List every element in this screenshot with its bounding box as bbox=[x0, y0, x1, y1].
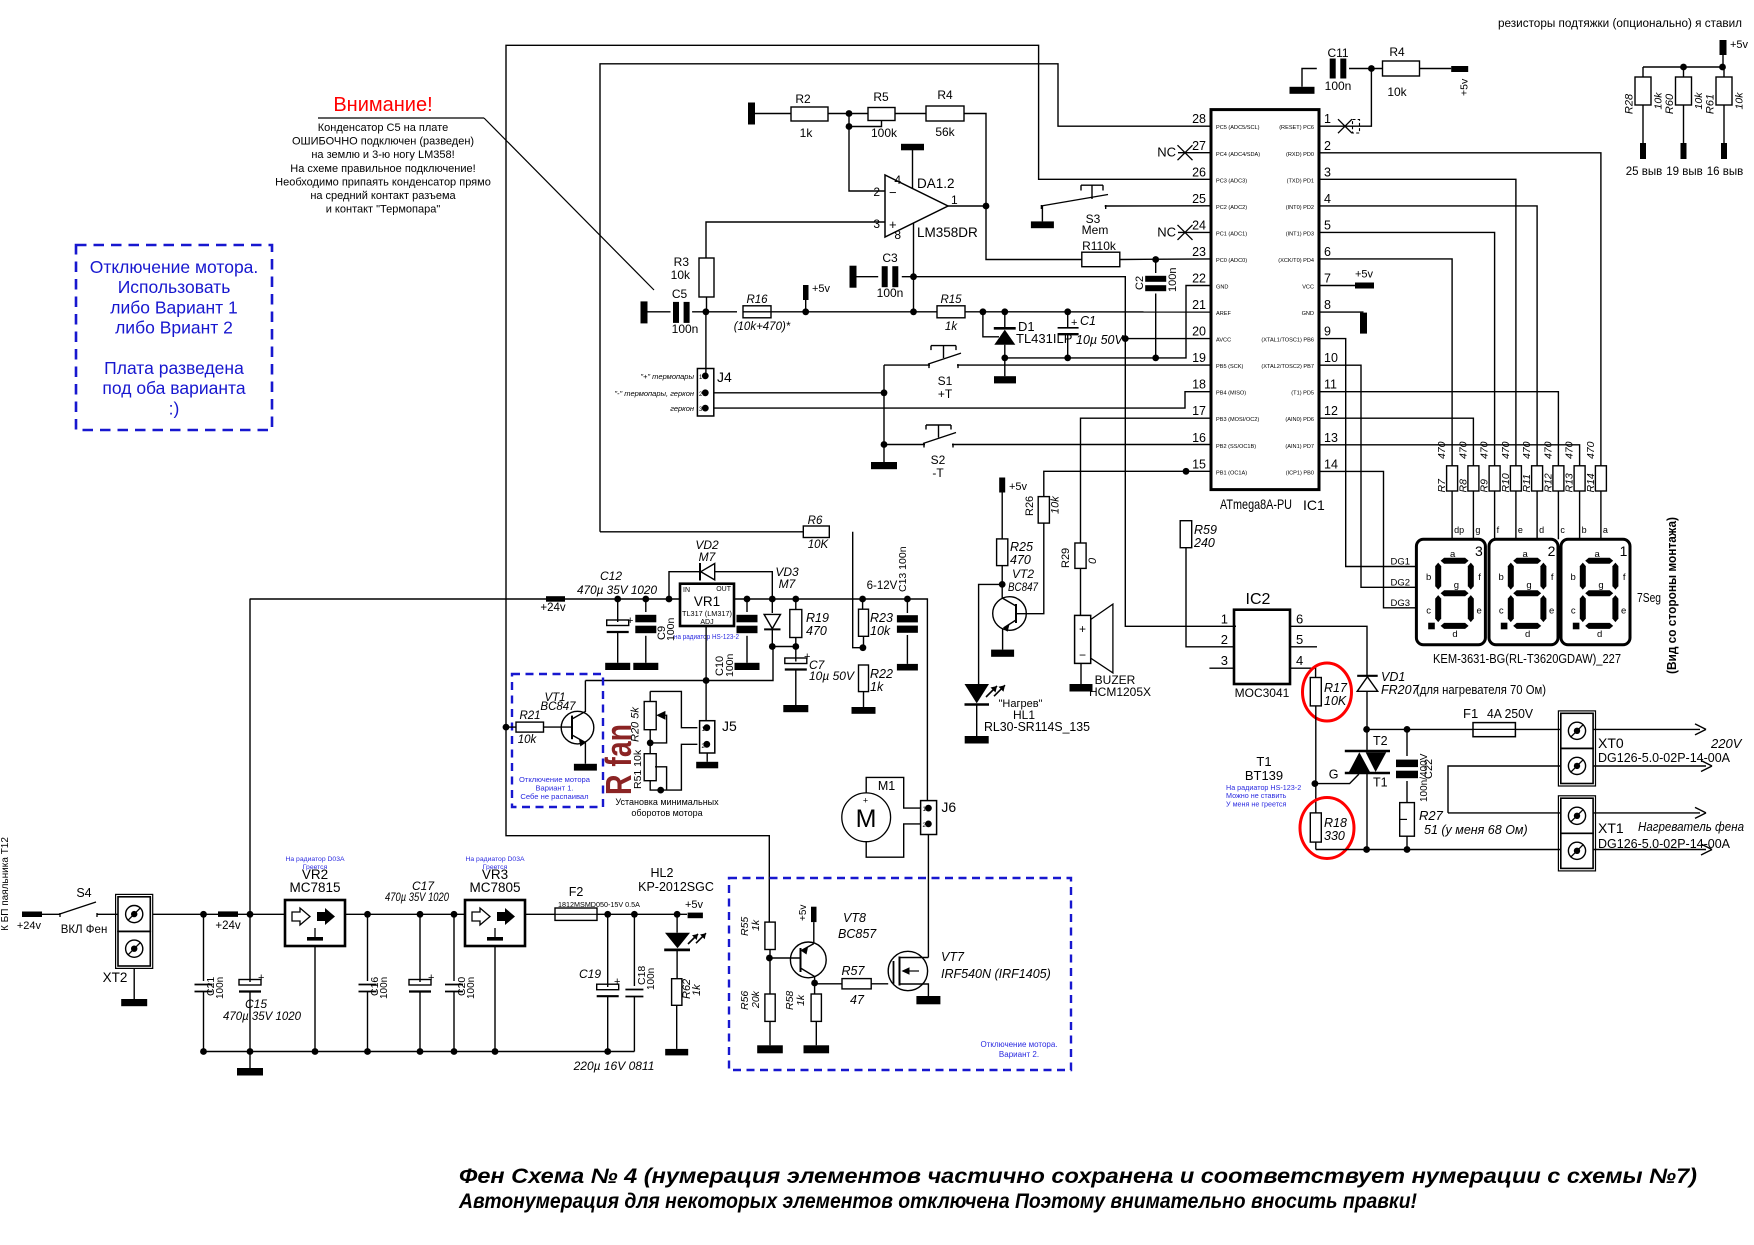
svg-text:0: 0 bbox=[1087, 557, 1099, 564]
svg-text:VT2: VT2 bbox=[1012, 567, 1034, 581]
svg-text:"-" термопары, геркон: "-" термопары, геркон bbox=[614, 389, 694, 398]
svg-text:+: + bbox=[614, 976, 620, 988]
svg-text:На схеме правильное подключени: На схеме правильное подключение! bbox=[290, 163, 475, 175]
svg-text:DG2: DG2 bbox=[1390, 577, 1410, 588]
svg-text:d: d bbox=[1539, 525, 1544, 535]
svg-text:220V: 220V bbox=[1710, 736, 1743, 751]
svg-text:ADJ: ADJ bbox=[700, 619, 713, 626]
svg-text:330: 330 bbox=[1324, 829, 1345, 843]
svg-text:16: 16 bbox=[1192, 431, 1206, 445]
svg-text:ATmega8A-PU: ATmega8A-PU bbox=[1220, 496, 1292, 512]
svg-text:IC1: IC1 bbox=[1303, 497, 1325, 513]
svg-text:6: 6 bbox=[1296, 611, 1303, 626]
svg-text:100k: 100k bbox=[871, 126, 898, 140]
svg-text:d: d bbox=[1452, 629, 1457, 640]
svg-text:470: 470 bbox=[1585, 441, 1597, 459]
svg-text:На радиатор D03A: На радиатор D03A bbox=[285, 856, 344, 863]
svg-text:d: d bbox=[1597, 629, 1602, 640]
svg-text:NC: NC bbox=[1157, 145, 1176, 160]
svg-text:DG3: DG3 bbox=[1390, 598, 1410, 609]
svg-text:XT0: XT0 bbox=[1598, 735, 1624, 751]
svg-text:470µ 35V 1020: 470µ 35V 1020 bbox=[223, 1009, 301, 1023]
svg-text:Конденсатор С5 на плате: Конденсатор С5 на плате bbox=[318, 122, 448, 134]
svg-text:C5: C5 bbox=[672, 287, 688, 301]
svg-text:Внимание!: Внимание! bbox=[333, 94, 432, 116]
svg-text:1: 1 bbox=[1221, 611, 1228, 626]
svg-text:Плата разведена: Плата разведена bbox=[104, 358, 244, 378]
svg-text:Вариант 2.: Вариант 2. bbox=[999, 1050, 1039, 1059]
svg-text:Отключение мотора.: Отключение мотора. bbox=[980, 1040, 1057, 1049]
svg-text:(XTAL2/TOSC2) PB7: (XTAL2/TOSC2) PB7 bbox=[1261, 364, 1314, 370]
svg-text:1k: 1k bbox=[870, 680, 884, 694]
svg-text:(ICP1) PB0: (ICP1) PB0 bbox=[1286, 470, 1314, 476]
svg-text:R19: R19 bbox=[806, 611, 829, 625]
svg-text:либо Вриант 2: либо Вриант 2 bbox=[115, 318, 233, 338]
svg-text:У меня не греется: У меня не греется bbox=[1226, 799, 1287, 808]
svg-text:b: b bbox=[1499, 572, 1504, 583]
svg-text:100n/400V: 100n/400V bbox=[1419, 753, 1430, 802]
svg-text:M7: M7 bbox=[699, 550, 717, 564]
svg-text:DG126-5.0-02P-14-00A: DG126-5.0-02P-14-00A bbox=[1598, 836, 1730, 851]
svg-text:470: 470 bbox=[1521, 441, 1533, 459]
svg-text:15: 15 bbox=[1192, 457, 1206, 471]
svg-text:(AIN1) PD7: (AIN1) PD7 bbox=[1285, 444, 1314, 450]
svg-text:GND: GND bbox=[1216, 285, 1228, 291]
svg-text:+5v: +5v bbox=[1730, 39, 1749, 51]
svg-text:Mem: Mem bbox=[1082, 223, 1109, 237]
svg-text:R4: R4 bbox=[937, 88, 953, 102]
svg-text:+: + bbox=[1079, 622, 1086, 636]
svg-text:c: c bbox=[1499, 605, 1504, 616]
svg-text:R13: R13 bbox=[1564, 473, 1576, 492]
svg-text::): :) bbox=[169, 398, 180, 418]
svg-text:a: a bbox=[1450, 549, 1456, 560]
svg-text:5: 5 bbox=[1324, 218, 1331, 232]
svg-text:10k: 10k bbox=[1653, 92, 1665, 110]
svg-text:b: b bbox=[1582, 525, 1587, 535]
svg-text:+24v: +24v bbox=[540, 602, 566, 614]
svg-text:1k: 1k bbox=[795, 994, 807, 1006]
svg-text:M7: M7 bbox=[779, 577, 797, 591]
svg-text:R2: R2 bbox=[795, 92, 811, 106]
svg-text:e: e bbox=[1621, 605, 1626, 616]
svg-text:R11: R11 bbox=[1521, 474, 1533, 492]
svg-text:(T1) PD5: (T1) PD5 bbox=[1291, 391, 1314, 397]
svg-text:R17: R17 bbox=[1324, 681, 1348, 695]
svg-text:c: c bbox=[1560, 525, 1565, 535]
svg-text:56k: 56k bbox=[935, 125, 955, 139]
svg-text:10: 10 bbox=[1324, 351, 1338, 365]
svg-text:R27: R27 bbox=[1419, 808, 1444, 823]
svg-text:M: M bbox=[856, 805, 877, 833]
svg-text:b: b bbox=[1571, 572, 1576, 583]
svg-text:e: e bbox=[1549, 605, 1554, 616]
svg-text:Отключение мотора.: Отключение мотора. bbox=[90, 257, 259, 277]
svg-text:R29: R29 bbox=[1060, 548, 1072, 568]
svg-text:9: 9 bbox=[1324, 325, 1331, 339]
svg-text:dp: dp bbox=[1454, 525, 1464, 535]
svg-text:VCC: VCC bbox=[1302, 285, 1314, 291]
svg-text:10K: 10K bbox=[1324, 694, 1347, 708]
svg-text:1: 1 bbox=[951, 193, 958, 207]
svg-text:21: 21 bbox=[1192, 298, 1206, 312]
svg-text:100n: 100n bbox=[1167, 268, 1179, 292]
svg-text:IN: IN bbox=[683, 587, 690, 594]
svg-text:PC0 (ADC0): PC0 (ADC0) bbox=[1216, 258, 1247, 264]
svg-text:100n: 100n bbox=[215, 977, 226, 999]
svg-text:LM358DR: LM358DR bbox=[917, 225, 978, 240]
svg-text:AREF: AREF bbox=[1216, 311, 1232, 317]
svg-text:GND: GND bbox=[1302, 311, 1314, 317]
svg-text:M1: M1 bbox=[878, 779, 895, 793]
svg-text:10K: 10K bbox=[808, 539, 830, 551]
svg-text:KEM-3631-BG(RL-T3620GDAW)_227: KEM-3631-BG(RL-T3620GDAW)_227 bbox=[1433, 652, 1621, 666]
svg-text:BC847: BC847 bbox=[540, 701, 576, 713]
svg-text:e: e bbox=[1518, 525, 1523, 535]
svg-text:7Seg: 7Seg bbox=[1637, 591, 1661, 605]
svg-text:11: 11 bbox=[1324, 378, 1337, 392]
svg-text:10k: 10k bbox=[518, 734, 538, 746]
svg-text:27: 27 bbox=[1192, 139, 1206, 153]
svg-text:470: 470 bbox=[1436, 441, 1448, 459]
svg-text:J4: J4 bbox=[717, 369, 732, 385]
svg-text:R9: R9 bbox=[1479, 479, 1491, 493]
svg-text:470: 470 bbox=[1500, 441, 1512, 459]
svg-text:R26: R26 bbox=[1024, 496, 1036, 516]
svg-text:25: 25 bbox=[1192, 192, 1206, 206]
svg-text:F2: F2 bbox=[569, 885, 584, 899]
svg-text:R7: R7 bbox=[1436, 478, 1448, 493]
svg-text:J5: J5 bbox=[722, 718, 737, 734]
svg-text:+24v: +24v bbox=[215, 920, 241, 932]
svg-text:ОШИБОЧНО подключен (разведен): ОШИБОЧНО подключен (разведен) bbox=[292, 136, 474, 148]
svg-text:10k: 10k bbox=[1387, 85, 1407, 99]
svg-text:R18: R18 bbox=[1324, 816, 1347, 830]
svg-text:R23: R23 bbox=[870, 611, 893, 625]
svg-text:RL30-SR114S_135: RL30-SR114S_135 bbox=[984, 720, 1090, 734]
svg-text:HL2: HL2 bbox=[651, 866, 674, 880]
svg-text:Установка минимальных: Установка минимальных bbox=[615, 797, 719, 807]
svg-text:S4: S4 bbox=[76, 886, 91, 900]
svg-text:Себе не распаивал: Себе не распаивал bbox=[520, 792, 588, 801]
svg-text:1: 1 bbox=[1324, 112, 1331, 126]
svg-text:g: g bbox=[1526, 580, 1531, 591]
svg-text:XT1: XT1 bbox=[1598, 820, 1624, 836]
svg-text:C1: C1 bbox=[1080, 314, 1096, 328]
svg-text:HCM1205X: HCM1205X bbox=[1089, 685, 1151, 699]
svg-text:Автонумерация для некоторых эл: Автонумерация для некоторых элементов от… bbox=[458, 1190, 1417, 1213]
svg-text:G: G bbox=[1329, 768, 1339, 782]
svg-text:PB4 (MISO): PB4 (MISO) bbox=[1216, 391, 1246, 397]
svg-text:либо Вариант 1: либо Вариант 1 bbox=[110, 297, 238, 317]
svg-text:J6: J6 bbox=[941, 799, 956, 815]
svg-text:100n: 100n bbox=[877, 286, 904, 300]
svg-text:470: 470 bbox=[806, 624, 827, 638]
svg-text:R22: R22 bbox=[870, 667, 893, 681]
svg-text:470: 470 bbox=[1564, 441, 1576, 459]
svg-text:2: 2 bbox=[1324, 139, 1331, 153]
svg-text:VD1: VD1 bbox=[1381, 670, 1405, 684]
svg-text:R59: R59 bbox=[1194, 523, 1217, 537]
svg-text:20k: 20k bbox=[750, 990, 762, 1009]
svg-text:240: 240 bbox=[1193, 536, 1215, 550]
svg-text:f: f bbox=[1623, 572, 1626, 583]
svg-text:1k: 1k bbox=[800, 126, 814, 140]
svg-text:S1: S1 bbox=[938, 374, 953, 388]
svg-text:4: 4 bbox=[894, 173, 901, 187]
svg-text:на землю и 3-ю ногу LM358!: на землю и 3-ю ногу LM358! bbox=[311, 149, 454, 161]
svg-text:4: 4 bbox=[1324, 192, 1331, 206]
svg-text:51 (у меня 68 Ом): 51 (у меня 68 Ом) bbox=[1424, 823, 1528, 837]
svg-text:BT139: BT139 bbox=[1245, 768, 1283, 783]
svg-text:e: e bbox=[1476, 605, 1481, 616]
svg-text:100n: 100n bbox=[379, 977, 390, 999]
svg-text:3: 3 bbox=[1221, 653, 1228, 668]
svg-text:14: 14 bbox=[1324, 457, 1338, 471]
svg-text:R110k: R110k bbox=[1082, 239, 1117, 253]
svg-text:100n: 100n bbox=[724, 653, 736, 677]
svg-text:NC: NC bbox=[1157, 224, 1176, 239]
svg-text:+: + bbox=[863, 796, 868, 806]
svg-text:3: 3 bbox=[1475, 543, 1483, 559]
svg-text:220µ 16V 0811: 220µ 16V 0811 bbox=[573, 1059, 655, 1073]
svg-text:19 выв: 19 выв bbox=[1666, 166, 1702, 178]
svg-text:+5v: +5v bbox=[1355, 269, 1374, 281]
svg-text:(Вид со стороны монтажа): (Вид со стороны монтажа) bbox=[1665, 517, 1679, 674]
svg-text:T1: T1 bbox=[1373, 776, 1388, 790]
svg-text:Фен Схема № 4 (нумерация элеме: Фен Схема № 4 (нумерация элементов части… bbox=[459, 1165, 1697, 1188]
svg-text:23: 23 bbox=[1192, 245, 1206, 259]
svg-text:R15: R15 bbox=[940, 294, 962, 306]
svg-text:-T: -T bbox=[932, 466, 944, 480]
svg-text:−: − bbox=[1079, 648, 1086, 662]
svg-text:и контакт "Термопара": и контакт "Термопара" bbox=[326, 204, 441, 216]
svg-text:3: 3 bbox=[873, 217, 880, 231]
svg-text:К БП паяльника Т12: К БП паяльника Т12 bbox=[0, 837, 11, 931]
svg-text:10k: 10k bbox=[870, 624, 891, 638]
svg-text:R6: R6 bbox=[808, 515, 823, 527]
svg-text:TL317 (LM317): TL317 (LM317) bbox=[682, 609, 732, 618]
svg-text:PB2 (SS/OC1B): PB2 (SS/OC1B) bbox=[1216, 444, 1256, 450]
svg-text:(INT1) PD3: (INT1) PD3 bbox=[1286, 231, 1314, 237]
svg-text:VR1: VR1 bbox=[694, 594, 720, 609]
svg-text:+T: +T bbox=[938, 387, 953, 401]
svg-text:4: 4 bbox=[1296, 653, 1303, 668]
svg-text:20: 20 bbox=[1192, 325, 1206, 339]
svg-text:FR207: FR207 bbox=[1381, 683, 1420, 697]
svg-text:c: c bbox=[1571, 605, 1576, 616]
svg-text:F1: F1 bbox=[1463, 706, 1478, 721]
svg-text:R20 5k: R20 5k bbox=[630, 707, 642, 742]
svg-text:+5v: +5v bbox=[1459, 78, 1471, 96]
svg-text:S2: S2 bbox=[931, 453, 946, 467]
svg-text:R57: R57 bbox=[842, 964, 866, 978]
svg-text:PB5 (SCK): PB5 (SCK) bbox=[1216, 364, 1243, 370]
svg-text:(XTAL1/TOSC1) PB6: (XTAL1/TOSC1) PB6 bbox=[1261, 338, 1314, 344]
svg-text:PC3 (ADC3): PC3 (ADC3) bbox=[1216, 178, 1247, 184]
svg-text:1: 1 bbox=[1620, 543, 1628, 559]
svg-text:1k: 1k bbox=[945, 321, 958, 333]
svg-text:R12: R12 bbox=[1542, 473, 1554, 492]
svg-text:10k: 10k bbox=[671, 268, 691, 282]
svg-text:(RESET) PC6: (RESET) PC6 bbox=[1279, 125, 1314, 131]
svg-text:8: 8 bbox=[894, 228, 901, 242]
svg-text:10µ 50V: 10µ 50V bbox=[1076, 333, 1124, 347]
svg-text:R28: R28 bbox=[1624, 93, 1636, 114]
svg-text:+5v: +5v bbox=[798, 905, 809, 921]
svg-text:R5: R5 bbox=[873, 90, 889, 104]
svg-text:BC847: BC847 bbox=[1008, 580, 1039, 594]
svg-text:c: c bbox=[1426, 605, 1431, 616]
svg-text:R51 10k: R51 10k bbox=[632, 749, 644, 789]
svg-text:DA1.2: DA1.2 bbox=[917, 176, 955, 191]
svg-text:(для нагревателя 70 Ом): (для нагревателя 70 Ом) bbox=[1416, 683, 1546, 697]
svg-text:1k: 1k bbox=[750, 919, 762, 931]
svg-text:4A 250V: 4A 250V bbox=[1487, 706, 1533, 721]
svg-text:(TXD) PD1: (TXD) PD1 bbox=[1287, 178, 1314, 184]
svg-text:g: g bbox=[1475, 525, 1480, 535]
svg-text:7: 7 bbox=[1324, 272, 1331, 286]
svg-text:R60: R60 bbox=[1664, 93, 1676, 114]
svg-text:резисторы подтяжки (опциональн: резисторы подтяжки (опционально) я стави… bbox=[1498, 18, 1742, 30]
svg-text:"+" термопары: "+" термопары bbox=[640, 372, 694, 381]
svg-text:470: 470 bbox=[1542, 441, 1554, 459]
svg-text:R61: R61 bbox=[1705, 94, 1717, 114]
svg-text:+: + bbox=[428, 972, 434, 984]
svg-text:19: 19 bbox=[1192, 351, 1206, 365]
svg-text:R8: R8 bbox=[1457, 479, 1469, 493]
svg-text:DG126-5.0-02P-14-00A: DG126-5.0-02P-14-00A bbox=[1598, 750, 1730, 765]
svg-text:Использовать: Использовать bbox=[118, 277, 231, 297]
svg-text:C12: C12 bbox=[600, 569, 622, 583]
svg-text:470: 470 bbox=[1457, 441, 1469, 459]
svg-text:10k: 10k bbox=[1050, 496, 1062, 514]
svg-text:на средний контакт разъема: на средний контакт разъема bbox=[310, 190, 456, 202]
svg-text:Греется: Греется bbox=[303, 864, 328, 871]
svg-text:12: 12 bbox=[1324, 404, 1338, 418]
svg-text:На радиатор D03A: На радиатор D03A bbox=[465, 856, 524, 863]
svg-text:a: a bbox=[1595, 549, 1601, 560]
svg-text:ВКЛ Фен: ВКЛ Фен bbox=[61, 924, 108, 936]
svg-text:VT8: VT8 bbox=[843, 911, 866, 925]
svg-text:22: 22 bbox=[1192, 272, 1206, 286]
svg-text:+: + bbox=[627, 615, 633, 627]
svg-text:2: 2 bbox=[1548, 543, 1556, 559]
svg-text:под оба варианта: под оба варианта bbox=[102, 378, 245, 398]
svg-text:(10k+470)*: (10k+470)* bbox=[734, 321, 791, 333]
svg-text:f: f bbox=[1478, 572, 1481, 583]
svg-text:R10: R10 bbox=[1500, 473, 1512, 492]
svg-text:470µ 35V 1020: 470µ 35V 1020 bbox=[577, 583, 657, 597]
svg-text:PC4 (ADC4/SDA): PC4 (ADC4/SDA) bbox=[1216, 152, 1260, 158]
svg-text:(INT0) PD2: (INT0) PD2 bbox=[1286, 205, 1314, 211]
svg-text:R21: R21 bbox=[519, 710, 540, 722]
svg-text:−: − bbox=[889, 185, 897, 200]
svg-text:оборотов мотора: оборотов мотора bbox=[631, 808, 702, 818]
svg-text:+5v: +5v bbox=[812, 283, 831, 295]
svg-text:100n: 100n bbox=[646, 968, 657, 990]
svg-text:(AIN0) PD6: (AIN0) PD6 bbox=[1285, 417, 1314, 423]
svg-text:1k: 1k bbox=[691, 984, 703, 996]
svg-text:1812MSMD050-15V 0.5A: 1812MSMD050-15V 0.5A bbox=[558, 900, 640, 909]
svg-text:XT2: XT2 bbox=[103, 970, 128, 985]
svg-text:100n: 100n bbox=[1325, 79, 1352, 93]
svg-text:C19: C19 bbox=[579, 967, 601, 981]
svg-text:C11: C11 bbox=[1327, 46, 1348, 60]
svg-text:g: g bbox=[1598, 580, 1603, 591]
svg-text:MC7805: MC7805 bbox=[469, 880, 520, 895]
svg-text:10µ 50V: 10µ 50V bbox=[809, 669, 855, 683]
svg-text:3: 3 bbox=[1324, 165, 1331, 179]
svg-text:R3: R3 bbox=[674, 255, 690, 269]
svg-text:2: 2 bbox=[873, 185, 880, 199]
svg-text:PB3 (MOSI/OC2): PB3 (MOSI/OC2) bbox=[1216, 417, 1259, 423]
svg-text:+: + bbox=[1071, 317, 1077, 329]
svg-text:R14: R14 bbox=[1585, 473, 1597, 492]
svg-text:8: 8 bbox=[1324, 298, 1331, 312]
svg-text:5: 5 bbox=[1296, 632, 1303, 647]
svg-text:b: b bbox=[1426, 572, 1431, 583]
svg-text:C13 100n: C13 100n bbox=[897, 546, 909, 592]
svg-text:25 выв: 25 выв bbox=[1626, 166, 1662, 178]
svg-text:OUT: OUT bbox=[716, 586, 732, 593]
svg-text:(RXD) PD0: (RXD) PD0 bbox=[1286, 152, 1314, 158]
svg-text:PC5 (ADC5/SCL): PC5 (ADC5/SCL) bbox=[1216, 125, 1260, 131]
svg-text:C2: C2 bbox=[1134, 276, 1146, 290]
svg-text:d: d bbox=[1525, 629, 1530, 640]
svg-text:+5v: +5v bbox=[685, 899, 704, 911]
svg-text:PC2 (ADC2): PC2 (ADC2) bbox=[1216, 205, 1247, 211]
svg-text:IC2: IC2 bbox=[1246, 591, 1271, 608]
svg-text:C3: C3 bbox=[882, 251, 898, 265]
svg-text:47: 47 bbox=[850, 993, 865, 1007]
svg-text:13: 13 bbox=[1324, 431, 1338, 445]
svg-text:R4: R4 bbox=[1389, 45, 1405, 59]
svg-text:DG1: DG1 bbox=[1390, 557, 1410, 568]
svg-text:AVCC: AVCC bbox=[1216, 338, 1231, 344]
svg-text:геркон: геркон bbox=[670, 404, 694, 413]
svg-text:BC857: BC857 bbox=[838, 927, 877, 941]
svg-text:PC1 (ADC1): PC1 (ADC1) bbox=[1216, 231, 1247, 237]
svg-text:26: 26 bbox=[1192, 165, 1206, 179]
svg-text:Нагреватель фена: Нагреватель фена bbox=[1638, 819, 1744, 834]
svg-text:16 выв: 16 выв bbox=[1707, 166, 1743, 178]
svg-text:100n: 100n bbox=[672, 322, 699, 336]
svg-text:Необходимо припаять конденсато: Необходимо припаять конденсатор прямо bbox=[275, 176, 491, 188]
svg-text:24: 24 bbox=[1192, 218, 1206, 232]
svg-text:KP-2012SGC: KP-2012SGC bbox=[638, 880, 714, 894]
svg-text:T2: T2 bbox=[1373, 734, 1388, 748]
svg-text:a: a bbox=[1603, 525, 1608, 535]
svg-text:(XCK/T0) PD4: (XCK/T0) PD4 bbox=[1278, 258, 1314, 264]
svg-text:17: 17 bbox=[1192, 404, 1206, 418]
svg-text:g: g bbox=[1454, 580, 1459, 591]
svg-text:+24v: +24v bbox=[17, 920, 42, 932]
svg-text:10k: 10k bbox=[1693, 92, 1705, 110]
svg-text:R16: R16 bbox=[746, 294, 768, 306]
svg-text:MOC3041: MOC3041 bbox=[1235, 686, 1290, 700]
svg-text:PB1 (OC1A): PB1 (OC1A) bbox=[1216, 470, 1247, 476]
svg-text:T1: T1 bbox=[1256, 754, 1271, 769]
svg-text:6: 6 bbox=[1324, 245, 1331, 259]
svg-text:28: 28 bbox=[1192, 112, 1206, 126]
svg-text:VT7: VT7 bbox=[941, 950, 965, 964]
svg-text:470: 470 bbox=[1479, 441, 1491, 459]
svg-text:a: a bbox=[1523, 549, 1529, 560]
svg-text:+5v: +5v bbox=[1009, 481, 1028, 493]
svg-text:18: 18 bbox=[1192, 378, 1206, 392]
svg-text:IRF540N (IRF1405): IRF540N (IRF1405) bbox=[941, 967, 1051, 981]
